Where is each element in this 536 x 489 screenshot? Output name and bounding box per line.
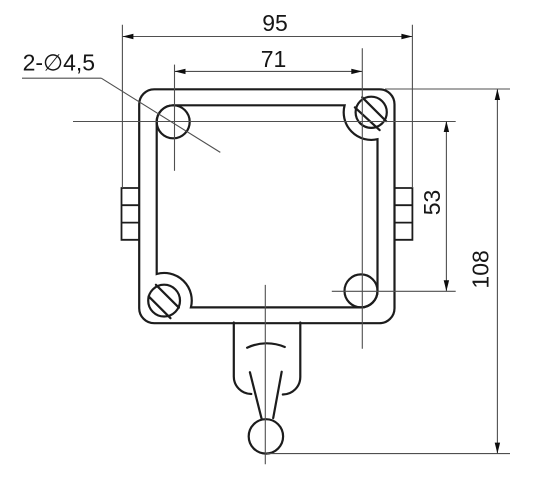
screw top-right — [355, 97, 387, 130]
centerline vertical hole BR — [361, 48, 363, 349]
centerline horizontal hole BR — [332, 290, 456, 292]
extension line 108 top — [385, 88, 510, 90]
centerline vertical hole TL — [174, 65, 176, 171]
plunger stem left edge — [250, 372, 262, 418]
svg-text:71: 71 — [261, 46, 287, 72]
svg-text:2-∅4,5: 2-∅4,5 — [23, 50, 95, 76]
spring seat arc — [247, 343, 285, 347]
dimension line 108 — [496, 89, 498, 454]
svg-text:53: 53 — [419, 190, 445, 216]
leader line for holes — [22, 77, 101, 79]
extension line 95 right — [411, 25, 413, 188]
centerline plunger — [264, 285, 266, 464]
dimension line 95 — [122, 36, 412, 38]
left side tab — [122, 188, 140, 240]
extension line 95 left — [121, 25, 123, 188]
dimension line 71 — [175, 70, 363, 72]
plunger housing left wall — [234, 323, 252, 395]
mounting hole bottom-right — [345, 274, 378, 307]
mounting hole top-left — [157, 105, 190, 138]
plunger housing right wall — [283, 323, 301, 395]
screw bottom-left — [148, 285, 180, 319]
extension line 108 bottom — [267, 453, 511, 455]
plunger stem right edge — [273, 372, 282, 418]
dimension line 53 — [445, 121, 447, 291]
body outer outline — [139, 89, 394, 323]
right side tab — [395, 188, 413, 240]
ball tip — [249, 419, 283, 453]
svg-text:95: 95 — [262, 10, 288, 36]
body inner outline with corner bosses — [157, 105, 378, 307]
svg-text:108: 108 — [468, 250, 494, 288]
centerline horizontal top holes — [73, 121, 456, 123]
